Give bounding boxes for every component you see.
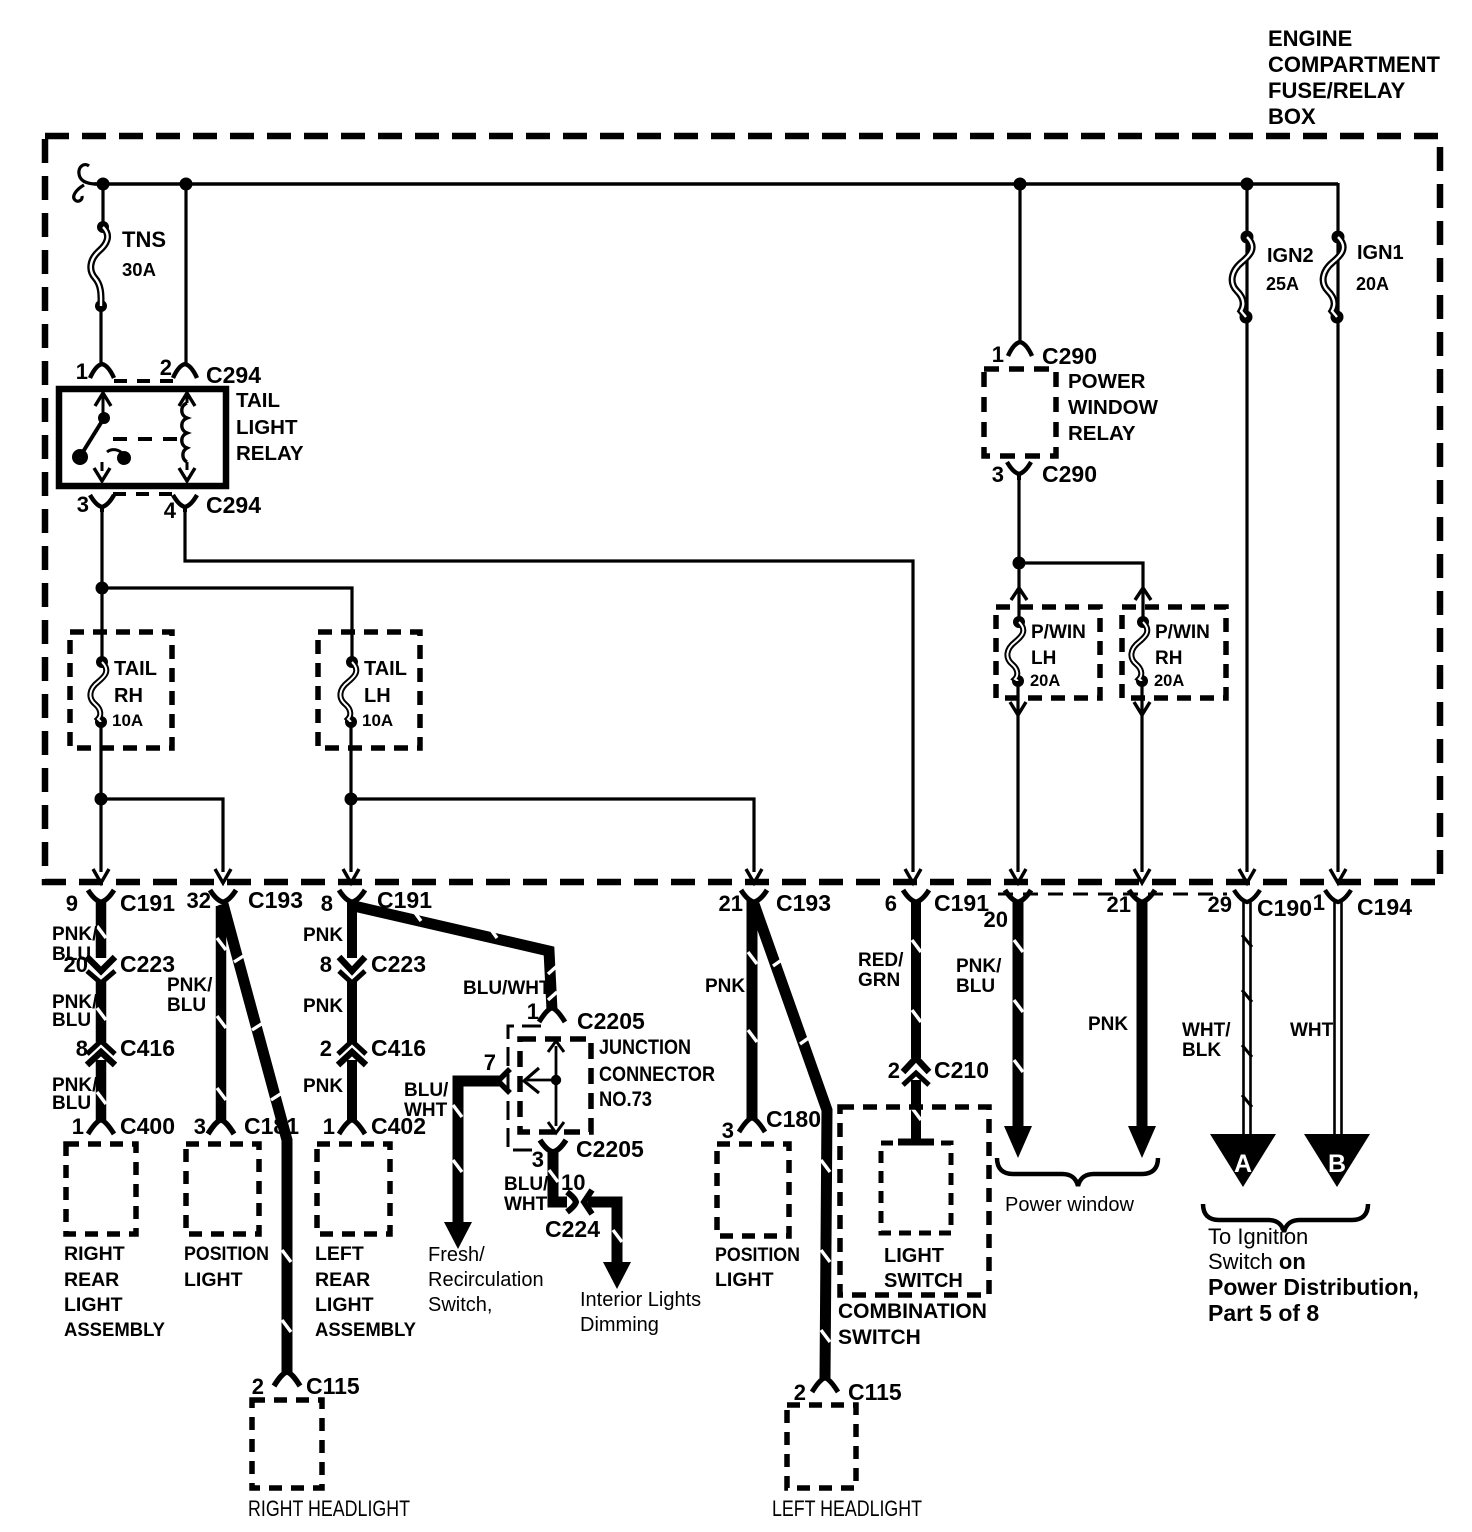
position light box (middle): [717, 1144, 789, 1236]
svg-text:1: 1: [527, 999, 539, 1024]
svg-text:Part 5 of 8: Part 5 of 8: [1208, 1300, 1319, 1326]
svg-text:REAR: REAR: [315, 1269, 370, 1291]
svg-text:BLU/: BLU/: [404, 1080, 449, 1101]
node bus-IGN2: [1241, 178, 1254, 191]
svg-text:Dimming: Dimming: [580, 1314, 659, 1336]
position light box (left): [186, 1144, 259, 1234]
wire WHT pin1 to B: [1335, 902, 1342, 1136]
svg-text:C224: C224: [545, 1216, 600, 1242]
svg-text:PNK: PNK: [303, 996, 343, 1017]
svg-text:ASSEMBLY: ASSEMBLY: [64, 1319, 165, 1341]
svg-text:WHT/: WHT/: [1182, 1020, 1231, 1041]
svg-text:PNK: PNK: [303, 925, 343, 946]
svg-text:JUNCTION: JUNCTION: [599, 1036, 691, 1059]
svg-text:BLU: BLU: [52, 1093, 91, 1114]
wire bus to TNS fuse: [101, 184, 104, 227]
wire PNK C223 to C416: [347, 981, 357, 1042]
svg-text:LH: LH: [1031, 648, 1056, 669]
node TAIL RH branch: [95, 793, 108, 806]
svg-text:21: 21: [1107, 892, 1131, 917]
svg-text:8: 8: [76, 1036, 88, 1061]
fuse box TAIL RH 10A: [70, 632, 172, 748]
node pin3 branch: [96, 582, 109, 595]
svg-text:LIGHT: LIGHT: [715, 1269, 774, 1291]
wire TAIL RH down: [99, 722, 102, 872]
relay coil: [179, 393, 195, 481]
pin 8 C191: [321, 887, 432, 916]
svg-text:C194: C194: [1357, 894, 1412, 920]
svg-text:CONNECTOR: CONNECTOR: [599, 1063, 715, 1086]
right rear light assembly box: [66, 1144, 136, 1234]
svg-text:Fresh/: Fresh/: [428, 1244, 485, 1266]
svg-text:GRN: GRN: [858, 970, 900, 991]
arrow into P/WIN LH: [1011, 588, 1027, 600]
combination switch outer box: [840, 1107, 989, 1295]
pin 1 C402: [323, 1113, 426, 1139]
left rear light assembly box: [317, 1144, 390, 1234]
svg-text:C290: C290: [1042, 461, 1097, 487]
svg-text:NO.73: NO.73: [599, 1088, 652, 1111]
svg-text:COMPARTMENT: COMPARTMENT: [1268, 52, 1440, 77]
svg-text:6: 6: [885, 891, 897, 916]
wire bus to IGN2 fuse: [1245, 184, 1248, 872]
junction connector internals: [524, 1041, 564, 1133]
pin 7 fork: [484, 1050, 510, 1093]
svg-text:BLU/: BLU/: [504, 1174, 549, 1195]
svg-text:C190: C190: [1257, 895, 1312, 921]
svg-text:1: 1: [992, 342, 1004, 367]
svg-text:POSITION: POSITION: [715, 1244, 800, 1266]
connector C210 (2): [888, 1057, 989, 1085]
wire RED/GRN pin6 to C210: [911, 900, 921, 1058]
svg-text:Power Distribution,: Power Distribution,: [1208, 1274, 1419, 1300]
svg-text:C400: C400: [120, 1113, 175, 1139]
svg-text:20: 20: [984, 907, 1008, 932]
svg-text:C416: C416: [371, 1035, 426, 1061]
svg-text:WHT: WHT: [1290, 1020, 1334, 1041]
svg-text:RIGHT HEADLIGHT: RIGHT HEADLIGHT: [248, 1496, 410, 1521]
right headlight box: [252, 1400, 322, 1488]
wire PNK/BLU C416 to C400: [96, 1060, 107, 1122]
svg-text:1: 1: [76, 359, 88, 384]
svg-text:C294: C294: [206, 362, 261, 388]
svg-text:21: 21: [719, 891, 743, 916]
svg-text:PNK/: PNK/: [956, 956, 1002, 977]
pin 21 (power window): [1107, 890, 1155, 917]
svg-text:IGN1: IGN1: [1357, 242, 1404, 264]
connector C416 (2): [320, 1035, 426, 1065]
wire TNS to pin1 C294: [99, 306, 102, 364]
svg-text:C115: C115: [306, 1373, 360, 1399]
svg-text:BLU: BLU: [52, 1010, 91, 1031]
svg-text:3: 3: [532, 1147, 544, 1172]
brace to ignition switch: [1203, 1204, 1368, 1232]
junction connector no.73 dashed box: [520, 1039, 591, 1132]
svg-text:POWER: POWER: [1068, 370, 1146, 393]
svg-text:BOX: BOX: [1268, 104, 1316, 129]
svg-text:RED/: RED/: [858, 950, 904, 971]
wire pin3 down: [100, 510, 103, 662]
wire PNK pin21 to C180: [747, 900, 758, 1120]
svg-text:3: 3: [77, 492, 89, 517]
fuse IGN1 20A: [1323, 231, 1404, 324]
svg-text:2: 2: [320, 1036, 332, 1061]
node bus-2: [180, 178, 193, 191]
svg-text:C290: C290: [1042, 343, 1097, 369]
wire branch to P/WIN RH: [1019, 563, 1143, 622]
svg-text:20A: 20A: [1030, 672, 1060, 690]
svg-text:TAIL: TAIL: [236, 389, 280, 412]
wire PNK/BLU pin32 to C181: [216, 906, 227, 1122]
wire BLU/WHT pin7 to fresh/recirculation: [458, 1081, 500, 1224]
svg-text:C193: C193: [776, 890, 831, 916]
arrow A to ignition switch: [1210, 1134, 1276, 1187]
svg-text:10A: 10A: [362, 711, 393, 730]
pin 32 C193: [187, 887, 303, 913]
svg-text:LIGHT: LIGHT: [884, 1245, 944, 1267]
svg-text:ENGINE: ENGINE: [1268, 26, 1352, 51]
svg-text:RH: RH: [114, 685, 143, 707]
svg-text:20A: 20A: [1356, 274, 1389, 294]
svg-text:PNK/: PNK/: [52, 924, 98, 945]
svg-text:REAR: REAR: [64, 1269, 119, 1291]
svg-text:PNK: PNK: [705, 976, 745, 997]
svg-text:2: 2: [888, 1058, 900, 1083]
svg-text:PNK: PNK: [303, 1076, 343, 1097]
wire P/WIN LH to border: [1016, 681, 1019, 872]
svg-text:LIGHT: LIGHT: [64, 1294, 123, 1316]
wire PNK/BLU pin32 diagonal to right headlight: [223, 904, 287, 1372]
svg-text:10A: 10A: [112, 711, 143, 730]
secondary connector dashed line: [998, 893, 1227, 896]
relay internal dashed link: [113, 437, 185, 441]
svg-text:BLU: BLU: [167, 995, 206, 1016]
wire C210 into light switch: [911, 1080, 921, 1140]
svg-text:TAIL: TAIL: [114, 658, 157, 680]
svg-text:C193: C193: [248, 887, 303, 913]
svg-text:BLK: BLK: [1182, 1040, 1221, 1061]
connector C294 pins 3,4: [77, 492, 261, 523]
to ignition switch label: [1208, 1224, 1419, 1326]
svg-text:C294: C294: [206, 492, 261, 518]
title: engine compartment fuse/relay box: [1268, 26, 1440, 129]
svg-text:2: 2: [160, 355, 172, 380]
relay switch contact: [72, 393, 131, 481]
svg-text:SWITCH: SWITCH: [884, 1270, 963, 1292]
svg-text:WHT: WHT: [504, 1194, 548, 1215]
svg-text:8: 8: [321, 891, 333, 916]
arrow below P/WIN LH: [1010, 702, 1026, 715]
svg-text:ASSEMBLY: ASSEMBLY: [315, 1319, 416, 1341]
svg-text:20A: 20A: [1154, 672, 1184, 690]
svg-text:P/WIN: P/WIN: [1155, 622, 1210, 643]
wire P/WIN RH to border: [1140, 681, 1143, 872]
svg-text:To Ignition: To Ignition: [1208, 1224, 1308, 1249]
fuse box P/WIN LH 20A: [996, 607, 1100, 698]
fuse TNS 30A: [91, 221, 166, 312]
node TAIL LH branch: [345, 793, 358, 806]
svg-text:7: 7: [484, 1050, 496, 1075]
svg-text:C2205: C2205: [576, 1136, 644, 1162]
wire pin4 right and down: [185, 510, 913, 872]
node bus-TNS: [97, 178, 110, 191]
svg-text:20: 20: [64, 952, 88, 977]
svg-text:C223: C223: [371, 951, 426, 977]
svg-text:TAIL: TAIL: [364, 658, 407, 680]
border arrows at connector row: [93, 869, 1346, 883]
svg-text:B: B: [1328, 1150, 1346, 1178]
wire WHT/BLK pin29 to A: [1242, 902, 1252, 1136]
pin 1 C194: [1313, 890, 1412, 920]
svg-text:LEFT: LEFT: [315, 1243, 364, 1265]
svg-text:C416: C416: [120, 1035, 175, 1061]
svg-text:Interior Lights: Interior Lights: [580, 1289, 701, 1311]
pin 29 C190: [1208, 890, 1312, 921]
svg-text:SWITCH: SWITCH: [838, 1326, 921, 1349]
pin 3 C180: [722, 1106, 821, 1143]
connector C224 (10): [545, 1170, 600, 1242]
connector C416 (8): [76, 1035, 175, 1065]
pin 1 C2205: [527, 999, 645, 1034]
svg-text:FUSE/RELAY: FUSE/RELAY: [1268, 78, 1406, 103]
svg-text:LH: LH: [364, 685, 391, 707]
fuse/relay box dashed border: [45, 136, 1440, 882]
pin 2 C115 (left headlight): [794, 1378, 902, 1405]
svg-text:PNK: PNK: [1088, 1014, 1128, 1035]
pin 20 (power window): [984, 890, 1031, 932]
node bus-C290: [1014, 178, 1027, 191]
svg-text:3: 3: [992, 462, 1004, 487]
svg-text:30A: 30A: [122, 259, 156, 280]
svg-text:WINDOW: WINDOW: [1068, 396, 1159, 419]
pin 2 C115 (right headlight): [252, 1372, 360, 1399]
svg-text:C181: C181: [244, 1113, 299, 1139]
pin 3 C181: [194, 1113, 299, 1139]
svg-text:Power window: Power window: [1005, 1194, 1135, 1216]
svg-text:Switch on: Switch on: [1208, 1249, 1306, 1274]
connector C290 pin1: [992, 342, 1097, 369]
brace power window: [997, 1158, 1158, 1186]
arrow into P/WIN RH: [1135, 588, 1151, 600]
arrow below P/WIN RH: [1134, 702, 1150, 715]
svg-text:RIGHT: RIGHT: [64, 1243, 125, 1265]
wire TAIL LH down: [349, 722, 352, 872]
wire bus to pin2 C294: [184, 184, 187, 364]
svg-text:1: 1: [1313, 890, 1325, 915]
connector C223 (20): [64, 951, 175, 983]
svg-text:29: 29: [1208, 892, 1232, 917]
arrow to fresh/recirculation switch: [444, 1222, 472, 1249]
pin 6 C191: [885, 890, 989, 916]
connector C290 pin3: [992, 461, 1097, 487]
svg-text:C2205: C2205: [577, 1008, 645, 1034]
arrow power window LH: [1004, 1126, 1032, 1158]
node P/WIN branch: [1013, 557, 1026, 570]
fuse box TAIL LH 10A: [318, 632, 420, 748]
power bus wire: [94, 182, 1338, 186]
fuse box P/WIN RH 20A: [1122, 607, 1226, 698]
wire branch to TAIL LH: [102, 588, 352, 662]
svg-text:1: 1: [72, 1114, 84, 1139]
arrow to interior lights dimming: [603, 1262, 631, 1289]
svg-text:P/WIN: P/WIN: [1031, 622, 1086, 643]
wire PNK pin21 diagonal to left headlight: [754, 904, 827, 1378]
svg-text:2: 2: [252, 1374, 264, 1399]
wire PNK/BLU C223 to C416: [96, 981, 107, 1042]
svg-text:C191: C191: [934, 890, 989, 916]
svg-text:TNS: TNS: [122, 227, 166, 252]
svg-text:LIGHT: LIGHT: [315, 1294, 374, 1316]
wire bus corner to IGN1 fuse: [1336, 183, 1339, 872]
arrow power window RH: [1128, 1126, 1156, 1158]
wire PNK/BLU pin9 to C223: [96, 900, 107, 958]
svg-text:C115: C115: [848, 1379, 902, 1405]
svg-text:2: 2: [794, 1380, 806, 1405]
wire branch to pin21: [351, 799, 754, 872]
fuse IGN2 25A: [1232, 231, 1314, 324]
pin 3 C2205: [532, 1136, 644, 1172]
pin 1 C400: [72, 1113, 175, 1139]
svg-text:9: 9: [66, 891, 78, 916]
wire PNK/BLU pin20 to power window: [1013, 900, 1024, 1128]
svg-text:Recirculation: Recirculation: [428, 1269, 544, 1291]
wire PNK C416 to C402: [347, 1060, 357, 1122]
svg-text:BLU: BLU: [956, 976, 995, 997]
wire branch to pin32: [101, 799, 223, 872]
wire BLU/WHT C2205 to C224: [553, 1150, 567, 1202]
svg-text:RELAY: RELAY: [236, 442, 304, 465]
svg-text:LIGHT: LIGHT: [184, 1269, 243, 1291]
svg-text:1: 1: [323, 1114, 335, 1139]
arrow B to ignition switch: [1304, 1134, 1370, 1187]
left headlight box: [787, 1405, 856, 1488]
connector C223 (8): [320, 951, 426, 983]
svg-text:Switch,: Switch,: [428, 1294, 492, 1316]
svg-text:32: 32: [187, 888, 211, 913]
svg-text:3: 3: [722, 1118, 734, 1143]
svg-text:LIGHT: LIGHT: [236, 416, 298, 439]
wire PNK pin21 to power window: [1137, 900, 1148, 1128]
svg-text:PNK/: PNK/: [167, 975, 213, 996]
light switch terminal bar: [898, 1139, 934, 1146]
svg-text:C191: C191: [120, 890, 175, 916]
svg-text:C210: C210: [934, 1057, 989, 1083]
pin 9 C191: [66, 890, 175, 916]
svg-text:IGN2: IGN2: [1267, 245, 1314, 267]
wire bus to C290 pin1: [1018, 184, 1021, 342]
svg-text:COMBINATION: COMBINATION: [838, 1300, 987, 1323]
wire PNK pin8 to C223: [347, 900, 357, 958]
relay: power window relay box: [984, 369, 1056, 456]
svg-text:25A: 25A: [1266, 274, 1299, 294]
svg-text:LEFT HEADLIGHT: LEFT HEADLIGHT: [772, 1496, 922, 1521]
relay: tail light relay box: [59, 389, 226, 486]
svg-text:POSITION: POSITION: [184, 1243, 269, 1265]
svg-text:RELAY: RELAY: [1068, 422, 1136, 445]
pin 21 C193: [719, 890, 831, 916]
bus hook terminal: [74, 165, 97, 202]
svg-text:C223: C223: [120, 951, 175, 977]
svg-text:BLU/WHT: BLU/WHT: [463, 978, 551, 999]
svg-text:C180: C180: [766, 1106, 821, 1132]
wire C290 pin3 down: [1017, 478, 1020, 622]
svg-text:10: 10: [561, 1170, 585, 1195]
svg-text:3: 3: [194, 1114, 206, 1139]
junction connector no.73 outer bracket: [508, 1026, 541, 1150]
svg-text:8: 8: [320, 952, 332, 977]
wire BLU/WHT pin8 diagonal to C2205: [354, 906, 552, 1010]
connector C294 pins 1,2: [76, 355, 261, 388]
wire to interior lights dimming: [588, 1202, 617, 1264]
svg-text:WHT: WHT: [404, 1100, 448, 1121]
svg-text:RH: RH: [1155, 648, 1182, 669]
svg-text:4: 4: [164, 498, 177, 523]
light switch inner box: [881, 1143, 951, 1233]
svg-text:A: A: [1234, 1150, 1252, 1178]
